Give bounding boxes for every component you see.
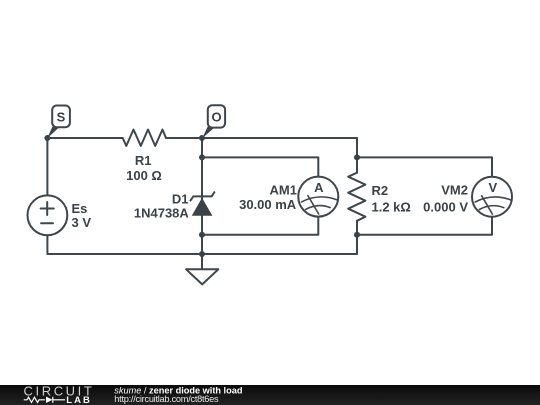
wire voltmeter top — [357, 157, 492, 177]
junction zener bottom tee — [199, 232, 205, 238]
zener diode D1 triangle — [192, 198, 213, 216]
svg-text:Es: Es — [72, 201, 88, 216]
junction dot S — [44, 135, 50, 141]
wire zener branch — [201, 138, 203, 254]
svg-text:30.00 mA: 30.00 mA — [239, 197, 297, 212]
resistor R1 — [123, 130, 166, 146]
wire ammeter bottom — [202, 217, 318, 235]
ammeter AM1 — [298, 177, 338, 217]
svg-text:V: V — [488, 180, 497, 195]
wire ammeter top — [202, 157, 318, 176]
svg-text:D1: D1 — [172, 192, 189, 207]
svg-text:http://circuitlab.com/ct8t6es: http://circuitlab.com/ct8t6es — [114, 394, 219, 404]
junction ground — [199, 251, 205, 257]
svg-text:VM2: VM2 — [441, 183, 468, 198]
wire top bus left segment — [47, 137, 122, 139]
svg-text:1N4738A: 1N4738A — [134, 205, 190, 220]
node O flag — [202, 126, 214, 138]
junction R2 bottom tee — [354, 232, 360, 238]
svg-text:LAB: LAB — [66, 395, 92, 405]
voltage source Es — [28, 195, 68, 235]
wire left branch lower — [46, 235, 48, 254]
resistor R2 — [348, 173, 365, 221]
wire left branch upper — [46, 138, 48, 195]
svg-text:O: O — [211, 110, 221, 125]
svg-text:1.2 kΩ: 1.2 kΩ — [372, 199, 411, 214]
wire R2 top lead — [356, 138, 358, 173]
svg-text:100 Ω: 100 Ω — [126, 168, 162, 183]
ground — [201, 254, 203, 269]
svg-text:A: A — [314, 180, 324, 195]
junction R2 top tee — [354, 154, 360, 160]
svg-text:AM1: AM1 — [270, 182, 297, 197]
zener diode D1 cathode bar — [190, 192, 214, 200]
wire bottom bus — [47, 253, 357, 255]
junction node O — [199, 135, 205, 141]
svg-text:3 V: 3 V — [72, 215, 92, 230]
logo squiggle wire — [24, 397, 65, 403]
junction zener top tee — [199, 154, 205, 160]
voltmeter VM2 — [472, 177, 512, 217]
svg-text:R2: R2 — [372, 183, 389, 198]
wire R2 bottom lead — [356, 221, 358, 254]
svg-text:R1: R1 — [135, 153, 152, 168]
svg-text:0.000 V: 0.000 V — [423, 199, 468, 214]
logo diode — [46, 397, 53, 403]
wire voltmeter bottom — [357, 217, 492, 235]
svg-text:S: S — [57, 110, 66, 125]
node S flag — [47, 127, 59, 139]
wire top bus right segment — [166, 137, 357, 139]
footer bar — [0, 385, 540, 405]
